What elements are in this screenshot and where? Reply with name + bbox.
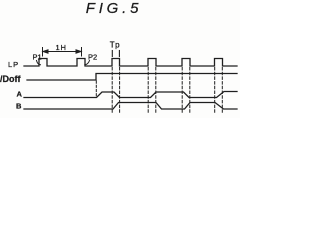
Tp width ticks [111, 51, 113, 57]
P2 leader [85, 61, 90, 65]
dashed line p5-rise [181, 68, 183, 114]
dimension 1H arrow [43, 51, 82, 53]
waveform LP [24, 59, 237, 67]
dashed line Tp-rise [111, 68, 113, 114]
svg-text:B: B [16, 102, 22, 111]
svg-text:FIG.5: FIG.5 [86, 0, 143, 17]
svg-text:/Doff: /Doff [0, 74, 21, 84]
svg-text:P1: P1 [33, 53, 42, 62]
dashed line p6-fall [221, 68, 223, 114]
dashed line p5-fall [189, 68, 191, 114]
dashed line p6-rise [214, 68, 216, 114]
svg-text:LP: LP [8, 60, 19, 69]
svg-text:A: A [17, 90, 23, 99]
svg-text:1H: 1H [56, 43, 67, 52]
svg-text:P2: P2 [88, 53, 97, 62]
dashed line p4-fall [155, 68, 157, 114]
waveform /Doff [27, 74, 237, 81]
dashed line p4-rise [147, 68, 149, 114]
waveform B [24, 103, 237, 110]
P1 leader [37, 61, 41, 65]
waveform A [24, 92, 237, 98]
dashed line Tp-fall [119, 68, 121, 114]
svg-text:Tp: Tp [110, 41, 120, 50]
dashed line Doff-step [95, 81, 97, 97]
